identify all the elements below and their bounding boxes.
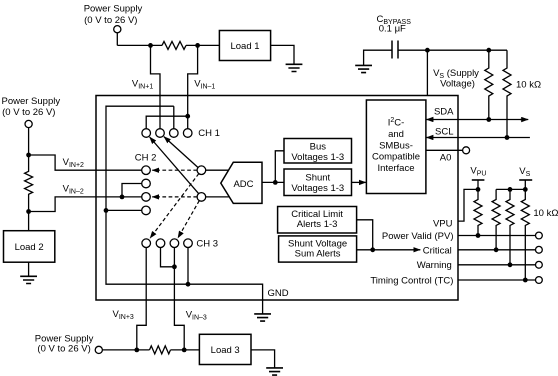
node R TC junction: [523, 278, 528, 283]
label VS (Supply Voltage): [433, 68, 479, 89]
ground cap: [355, 65, 372, 72]
resistor R Critical 10k: [492, 189, 500, 249]
svg-text:(0 V to 26 V): (0 V to 26 V): [84, 15, 137, 26]
svg-text:(0 V to 26 V): (0 V to 26 V): [37, 344, 90, 355]
load Load 3: [199, 334, 251, 364]
wire supply3 rail right: [171, 349, 200, 351]
wire CH2 c2 tie: [122, 184, 142, 197]
resistor shunt RS1: [162, 41, 186, 49]
wire CH1 contact1 tie to VIN-1: [146, 116, 188, 129]
node R Warning junction: [508, 262, 513, 267]
terminal power-supply 2: [25, 120, 32, 127]
wire VS into chip: [426, 50, 428, 95]
svg-text:CH 2: CH 2: [135, 152, 157, 163]
node VIN-1 tap: [195, 43, 200, 48]
node VPU junction: [476, 187, 481, 192]
wire ADC input top: [206, 169, 229, 171]
svg-text:ADC: ADC: [233, 179, 253, 190]
wire PV out: [458, 235, 536, 237]
node VIN+2 tap: [26, 153, 31, 158]
block Bus Voltages 1-3: [284, 139, 352, 164]
label Power Supply bottom: [35, 333, 94, 354]
wire CH3 c4 to gnd bus: [187, 248, 189, 285]
svg-text:Alerts 1-3: Alerts 1-3: [297, 219, 338, 230]
block Critical Limit Alerts 1-3: [278, 207, 357, 234]
terminal TC: [536, 277, 543, 284]
supply bar VPU: [472, 179, 485, 181]
wire ADC output: [262, 181, 284, 183]
arrow mux dashed to CH3 c1: [150, 174, 199, 239]
svg-text:Power Supply: Power Supply: [1, 96, 60, 107]
wire Warning out: [458, 264, 536, 266]
supply bar VS right: [519, 179, 532, 181]
wire internal gnd bus: [106, 106, 263, 314]
node gnd bus CH3 c4: [186, 282, 191, 287]
svg-text:and: and: [388, 129, 404, 140]
wire SCL: [434, 137, 530, 139]
terminal power-supply 1: [114, 26, 121, 33]
block Shunt Voltages 1-3: [284, 169, 352, 196]
ground load2: [20, 276, 37, 283]
node SDA pullup tap: [486, 48, 491, 53]
wire supply2 to load2: [28, 212, 30, 231]
node R PV junction: [476, 233, 481, 238]
wire cap left to ground: [364, 50, 392, 65]
wire VIN-1: [188, 45, 198, 128]
resistor SDA pull-up 10k: [485, 50, 493, 119]
svg-text:Load 1: Load 1: [230, 41, 259, 52]
wire load1 to ground: [271, 45, 294, 64]
wire supply2 down: [28, 128, 30, 155]
mux CH2 contacts: [142, 166, 151, 215]
wire SDA: [430, 119, 524, 121]
resistor R PV 10k: [474, 189, 482, 235]
node VIN+3 tap: [134, 348, 139, 353]
wire CH1 c3 to gnd bus: [173, 106, 175, 129]
node VIN-2 tap: [26, 209, 31, 214]
wire supply1 down: [116, 33, 118, 46]
svg-text:SDA: SDA: [434, 107, 454, 118]
svg-text:(0 V to 26 V): (0 V to 26 V): [2, 107, 55, 118]
svg-text:10 kΩ: 10 kΩ: [533, 208, 558, 219]
wire ADC input bottom: [206, 196, 230, 198]
terminal Warning: [536, 261, 543, 268]
wire load2 to ground: [28, 262, 30, 276]
arrow mux dashed to CH2 c3: [152, 196, 197, 198]
svg-text:0.1 μF: 0.1 μF: [379, 24, 406, 35]
svg-text:10 kΩ: 10 kΩ: [516, 80, 541, 91]
capacitor CBYPASS plates: [392, 41, 398, 59]
terminal power-supply 3: [95, 346, 102, 353]
svg-text:Power Valid (PV): Power Valid (PV): [382, 231, 454, 242]
svg-text:CH 1: CH 1: [198, 128, 220, 139]
svg-text:Sum Alerts: Sum Alerts: [295, 248, 341, 259]
svg-text:VPU: VPU: [433, 218, 453, 229]
node CH3 tie: [172, 264, 177, 269]
svg-text:Bus: Bus: [310, 141, 327, 152]
node SDA pullup junction: [486, 117, 491, 122]
svg-text:Voltages 1-3: Voltages 1-3: [291, 152, 344, 163]
wire critical limit to junction: [357, 220, 373, 250]
svg-text:GND: GND: [268, 288, 289, 299]
svg-text:Power Supply: Power Supply: [84, 4, 143, 15]
resistor shunt RS2: [25, 155, 33, 212]
adc ADC converter: [221, 162, 262, 203]
wire shunt sum to junction: [357, 249, 373, 251]
svg-text:Compatible: Compatible: [372, 152, 420, 163]
ground load3: [266, 368, 283, 375]
arrow mux dashed to CH2 c1: [152, 169, 197, 171]
svg-text:SMBus-: SMBus-: [379, 140, 413, 151]
load Load 2: [4, 231, 55, 263]
wire CH2 c1 VIN+2: [29, 155, 142, 170]
svg-text:CH 3: CH 3: [196, 238, 218, 249]
node R Critical junction: [494, 247, 499, 252]
ground load1: [286, 64, 303, 71]
wire A0: [426, 149, 463, 151]
wire VPU pin to rail: [458, 189, 478, 221]
svg-text:Voltage): Voltage): [440, 79, 475, 90]
wire CH3 c1 VIN+3: [137, 248, 146, 351]
svg-text:Load 2: Load 2: [15, 242, 44, 253]
svg-text:I2C-: I2C-: [388, 117, 405, 128]
svg-text:SCL: SCL: [435, 127, 453, 138]
wire to Bus Voltages block: [275, 151, 284, 183]
arrow mux solid to CH1 c2: [164, 137, 198, 168]
label Power Supply (0 V to 26 V) top: [84, 4, 143, 26]
node VS tap: [425, 48, 430, 53]
node VS rail j1: [508, 187, 513, 192]
node SCL pullup junction: [505, 135, 510, 140]
wire VS rail: [398, 49, 507, 51]
resistor R Warning 10k: [506, 189, 514, 264]
arrow alerts to Critical: [373, 249, 421, 251]
block I2C/SMBus interface U-interface: [366, 100, 426, 194]
node VIN-3 tap: [182, 348, 187, 353]
node gnd bus CH2 c4: [104, 208, 109, 213]
node CH2 tie: [120, 195, 125, 200]
svg-text:Load 3: Load 3: [211, 345, 240, 356]
resistor shunt RS3: [150, 346, 171, 354]
mux CH3 contacts: [142, 239, 192, 248]
node VIN+1 tap: [148, 43, 153, 48]
node ADC output junction: [273, 180, 278, 185]
node tie VIN-1 junction: [185, 114, 190, 119]
terminal PV: [536, 232, 543, 239]
wire CH3 c2 tie: [161, 248, 175, 267]
wire CH3 c3 VIN-3: [174, 248, 184, 351]
wire CH2 c4 to gnd bus: [106, 209, 142, 211]
wire supply3 rail left: [102, 349, 149, 351]
svg-text:Shunt: Shunt: [305, 173, 330, 184]
wire load3 to ground: [251, 350, 275, 368]
terminal Critical: [536, 246, 543, 253]
wire VIN+1: [151, 45, 161, 128]
load Load 1: [219, 31, 270, 61]
mux CH1 contacts: [142, 129, 192, 138]
wire CH2 c3 VIN-2: [29, 197, 142, 212]
arrow mux dashed to CH3 c3: [178, 201, 199, 238]
wire VPU stub: [477, 180, 479, 189]
svg-text:Critical: Critical: [423, 245, 452, 256]
svg-text:Timing Control (TC): Timing Control (TC): [370, 275, 453, 286]
wire Critical out: [458, 249, 536, 251]
block Shunt Voltage Sum Alerts: [279, 236, 357, 262]
mux common contact bottom: [197, 193, 206, 202]
svg-text:Warning: Warning: [417, 260, 452, 271]
ground chip GND: [254, 314, 271, 321]
wire TC out: [458, 279, 536, 281]
svg-text:Voltages 1-3: Voltages 1-3: [291, 183, 344, 194]
wire supply1 rail left: [117, 44, 162, 46]
wire supply1 rail right: [186, 44, 219, 46]
label Power Supply left: [1, 96, 60, 118]
terminal A0: [463, 147, 470, 154]
node VS rail j2: [523, 187, 528, 192]
svg-text:A0: A0: [440, 152, 452, 163]
arrow mux solid to CH1 c1: [150, 137, 199, 194]
resistor SCL pull-up 10k: [503, 50, 511, 137]
mux common contact top: [197, 166, 206, 175]
wire Shunt block to interface: [352, 181, 366, 183]
svg-text:Interface: Interface: [378, 163, 415, 174]
node alerts junction: [370, 247, 375, 252]
chip INA3221 outline: [96, 96, 458, 301]
resistor R TC 10k: [521, 189, 529, 280]
wire VS stub and rail: [496, 180, 525, 189]
